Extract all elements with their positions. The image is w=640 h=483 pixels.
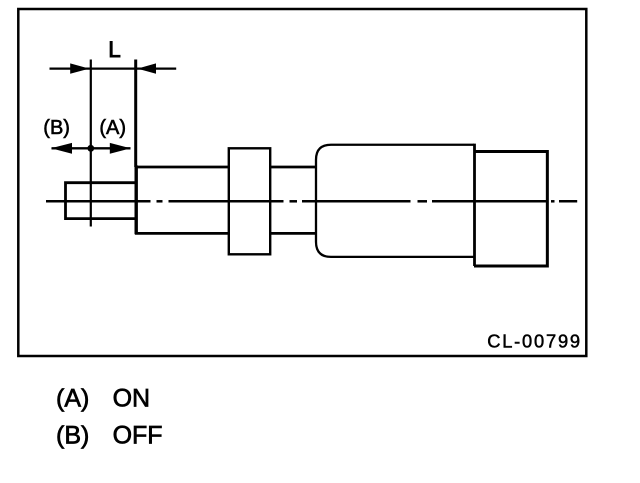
connector rectangle (474, 151, 547, 266)
svg-text:OFF: OFF (113, 421, 163, 449)
centerline dash 1 (46, 200, 151, 203)
arrowhead L right (137, 63, 156, 73)
centerline dash 2 (169, 200, 284, 203)
svg-text:(B): (B) (43, 117, 70, 139)
centerline dot 4 (551, 200, 555, 203)
rod top edge right segment (270, 166, 317, 169)
centerline dot 1 (157, 200, 163, 203)
rod left edge (134, 165, 137, 234)
border frame (18, 9, 586, 356)
rod bottom edge right segment (270, 232, 317, 235)
rod top edge left segment (135, 166, 230, 169)
svg-text:L: L (108, 37, 121, 62)
flange rectangle (229, 148, 270, 254)
svg-text:ON: ON (113, 384, 151, 412)
extension line right (134, 60, 137, 168)
arrow B-A shaft (52, 147, 131, 149)
svg-text:(A): (A) (99, 117, 126, 139)
centerline dot 2 (290, 200, 298, 203)
centerline dot 3 (418, 200, 428, 203)
rod bottom edge left segment (135, 232, 230, 235)
node dot on extension line (87, 145, 94, 152)
svg-text:(A): (A) (56, 384, 89, 412)
extension line left (90, 60, 92, 227)
centerline dash 3 (302, 200, 411, 203)
arrowhead A (right) (110, 143, 131, 154)
centerline dash 4 (432, 200, 548, 203)
arrowhead B (left) (51, 143, 72, 154)
centerline dash 5 (559, 200, 577, 203)
body/connector shared edge (473, 144, 476, 266)
svg-text:(B): (B) (56, 421, 89, 449)
plunger tip rectangle (66, 183, 137, 219)
arrowhead L left (70, 63, 89, 73)
svg-text:CL-00799: CL-00799 (487, 331, 582, 352)
dimension line L (50, 67, 177, 69)
switch body with rounded left corners (316, 145, 474, 257)
